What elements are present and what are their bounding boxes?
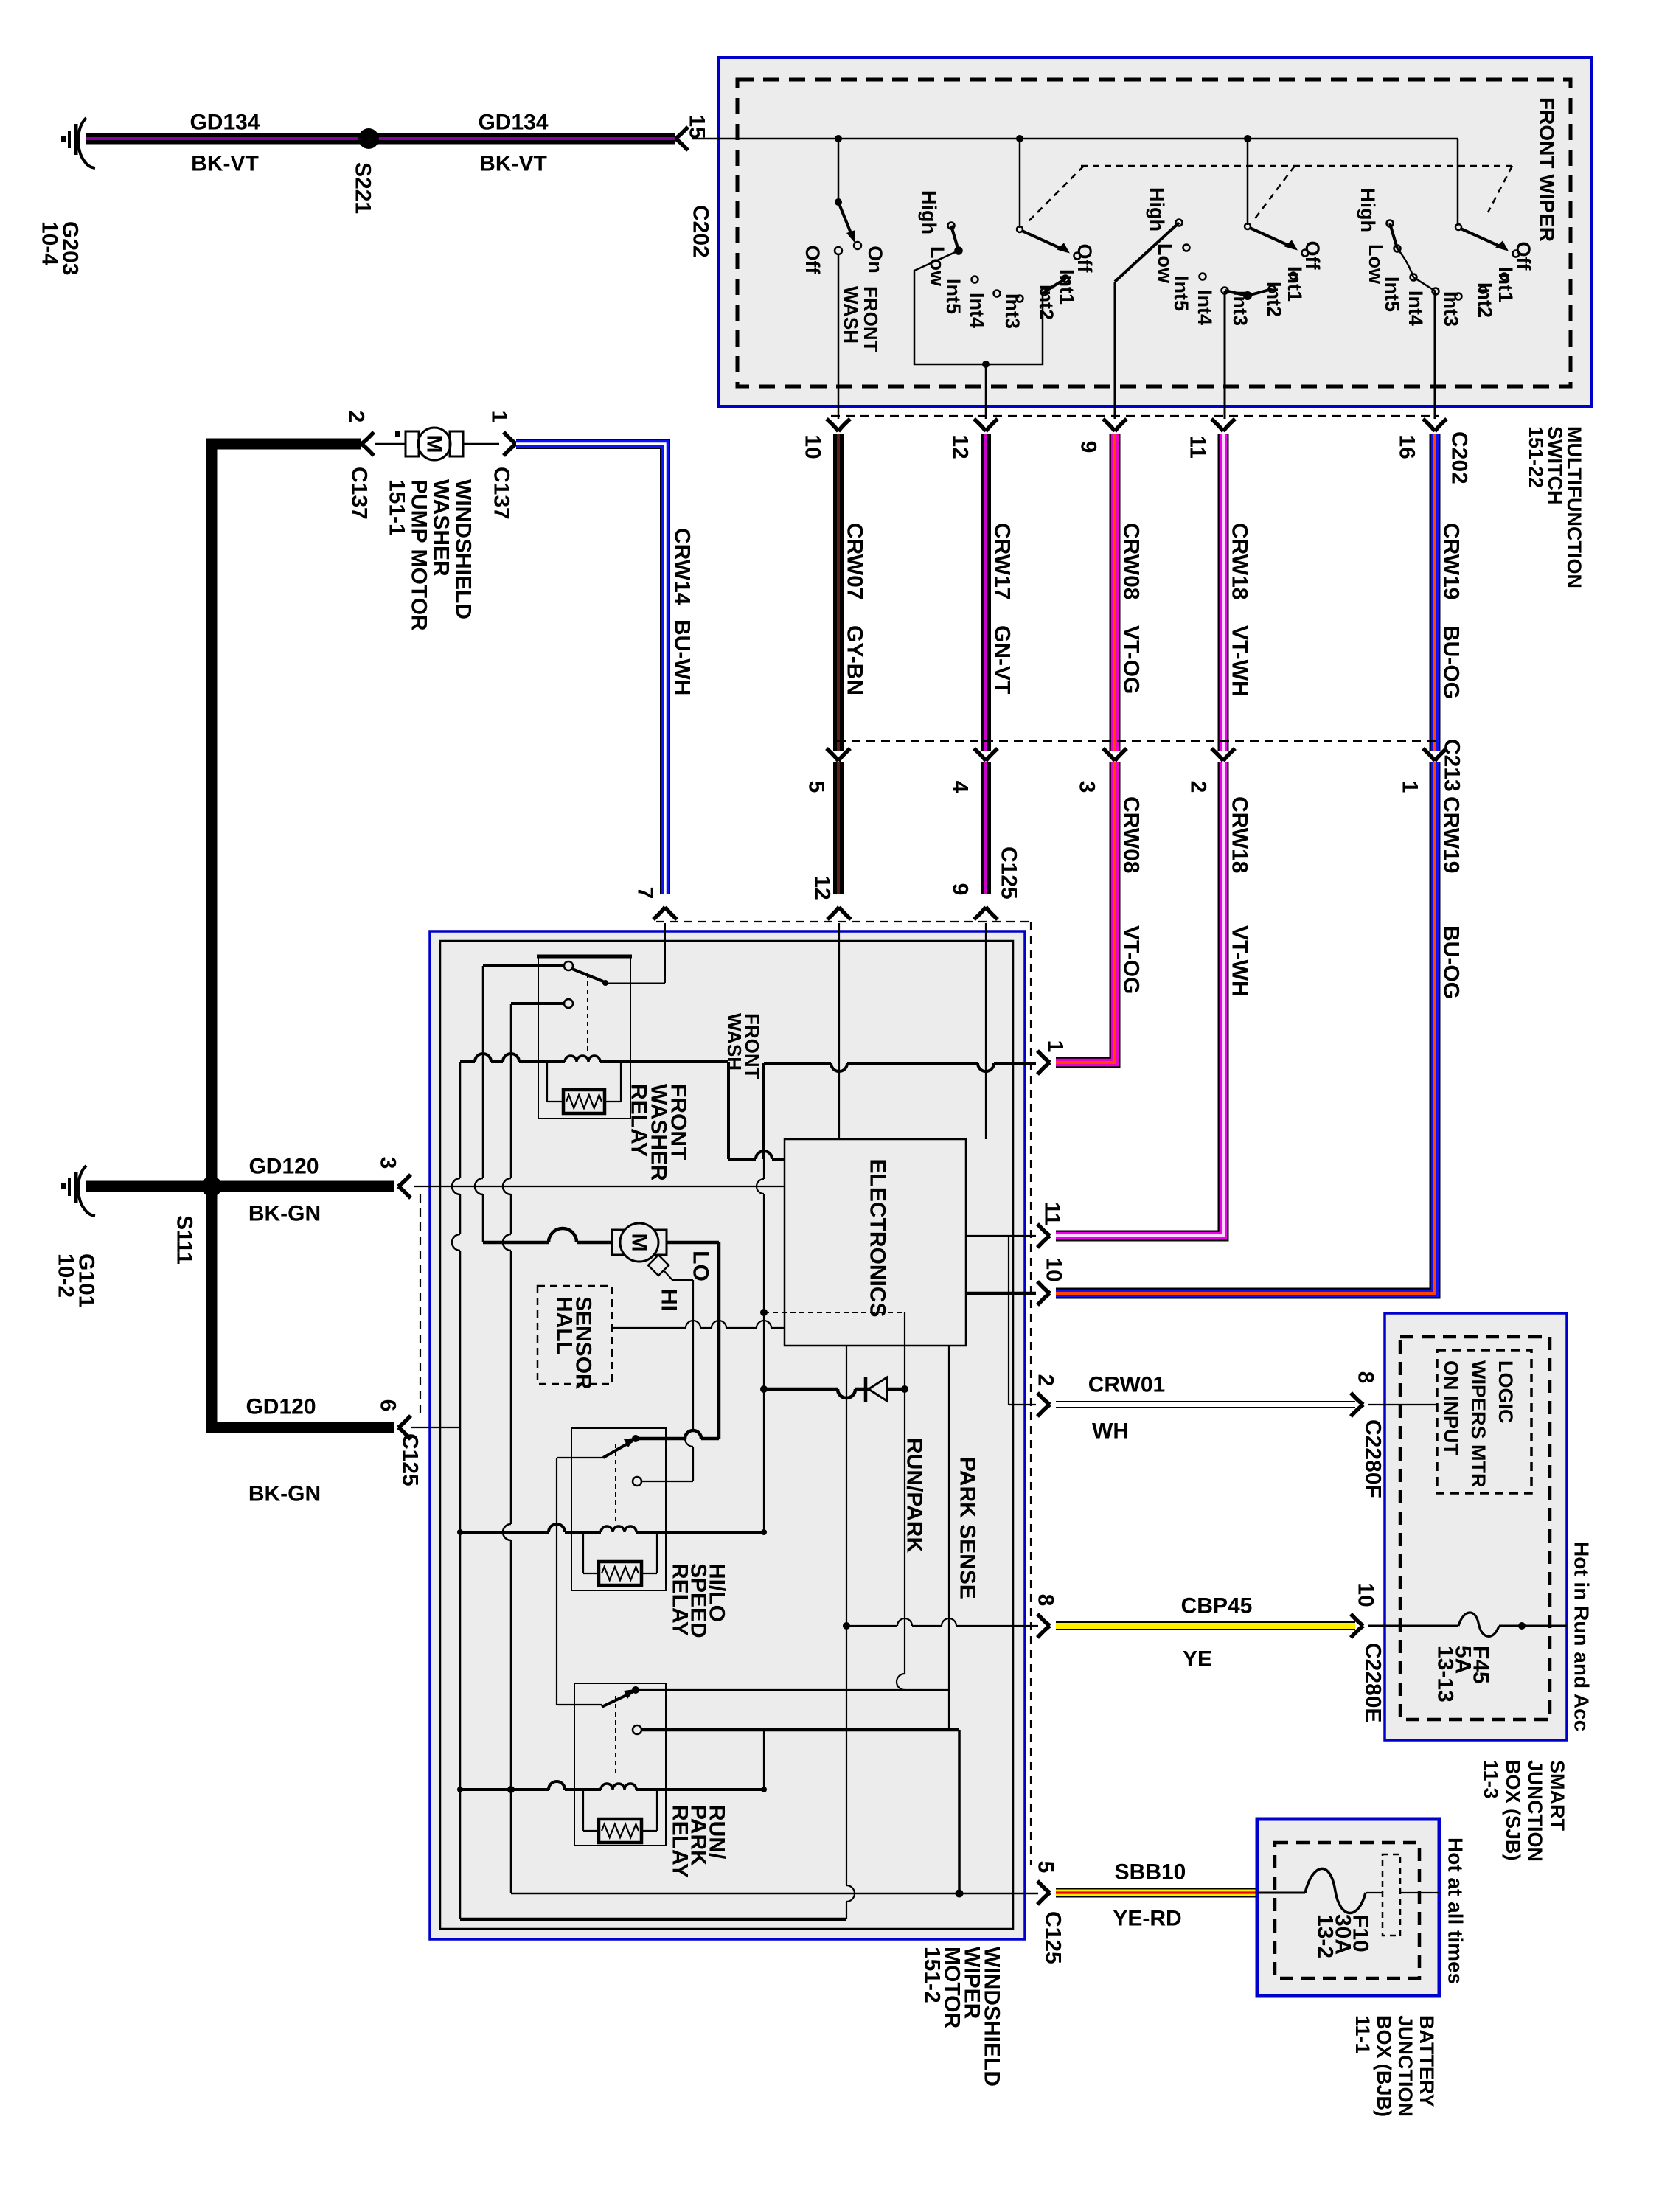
svg-text:C202: C202 (689, 205, 713, 258)
svg-text:JUNCTION: JUNCTION (1394, 2015, 1416, 2117)
svg-text:RELAY: RELAY (668, 1805, 692, 1878)
C202 pin 9 arrow (1103, 419, 1115, 431)
fuse F45 5A feed line (1368, 1625, 1458, 1627)
svg-text:151-1: 151-1 (385, 479, 409, 536)
C125 pin 6 arrow (398, 1416, 411, 1427)
linkage dashed bus (1081, 165, 1512, 167)
svg-text:VT-OG: VT-OG (1119, 925, 1144, 994)
svg-text:C202: C202 (1447, 431, 1472, 484)
FRONT WIPER switch box (multifunction switch) (719, 58, 1592, 406)
svg-text:High: High (918, 190, 940, 234)
C202 pin 10 arrow (827, 419, 838, 431)
linkage dashed pole1 (1026, 166, 1084, 223)
bus taps to switch pivots (835, 135, 842, 142)
svg-text:12: 12 (810, 875, 835, 900)
front washer relay (538, 956, 630, 1119)
connector C202 dashed boundary (831, 415, 1439, 417)
svg-text:CRW01: CRW01 (1088, 1373, 1165, 1397)
svg-text:CBP45: CBP45 (1181, 1594, 1253, 1618)
svg-text:C125: C125 (997, 846, 1021, 900)
motor pin 11 arrow (1037, 1224, 1050, 1236)
svg-text:CRW18: CRW18 (1228, 523, 1252, 599)
C202 pin 11 arrow (1211, 419, 1223, 431)
C2280F pin 8 arrow (1351, 1393, 1363, 1405)
svg-text:GD120: GD120 (248, 1155, 319, 1179)
svg-text:8: 8 (1034, 1594, 1058, 1607)
motor pin 8 arrow (1037, 1614, 1050, 1626)
wire GD120 ground branch and pin3 (86, 1181, 394, 1192)
svg-text:5: 5 (1034, 1861, 1058, 1874)
C137 pin 1 arrow (504, 432, 516, 444)
wire CRW17 GN-VT upper (981, 434, 991, 751)
hall sensor line (612, 1327, 686, 1329)
motor to hi/lo relay contact (717, 1242, 721, 1439)
svg-text:Int4: Int4 (1194, 290, 1216, 325)
C213 pin 2 arrow (1211, 748, 1223, 761)
svg-text:Off: Off (801, 246, 824, 275)
svg-text:2: 2 (1186, 781, 1211, 793)
svg-text:Int2: Int2 (1035, 285, 1057, 320)
svg-text:FRONT WIPER: FRONT WIPER (1536, 97, 1559, 242)
svg-text:C2280E: C2280E (1361, 1643, 1385, 1722)
wire CRW07 GY-BN upper (833, 434, 844, 751)
svg-text:GN-VT: GN-VT (990, 625, 1015, 694)
wire CRW17 lower to C125 pin 9 (981, 762, 991, 894)
washer relay resistor (546, 1062, 548, 1102)
svg-text:3: 3 (376, 1157, 400, 1169)
svg-text:11-3: 11-3 (1480, 1760, 1502, 1799)
svg-text:CRW07: CRW07 (843, 523, 867, 599)
hi/lo relay coil line (460, 1531, 549, 1534)
svg-text:GD134: GD134 (478, 111, 548, 135)
svg-text:BU-OG: BU-OG (1439, 625, 1464, 699)
svg-text:Int5: Int5 (1381, 276, 1403, 312)
svg-text:5: 5 (804, 781, 829, 793)
svg-text:10: 10 (801, 434, 825, 459)
hall sensor (538, 1286, 612, 1384)
pin 11 stub (966, 1235, 1036, 1237)
CRW01 source line (1008, 1236, 1009, 1405)
C125 pin 7 arrow (653, 907, 665, 919)
svg-text:11-1: 11-1 (1352, 2015, 1374, 2054)
svg-text:High: High (1357, 188, 1379, 232)
wire CRW08 lower to motor pin 1 (1056, 762, 1115, 1062)
SMART JUNCTION BOX (1385, 1313, 1567, 1740)
svg-text:Int3: Int3 (1229, 291, 1251, 326)
svg-text:GD134: GD134 (189, 111, 260, 135)
svg-text:CRW08: CRW08 (1119, 796, 1144, 873)
motor pin 5 arrow (1037, 1881, 1050, 1893)
splice S221 (358, 128, 379, 149)
svg-text:Hot at all times: Hot at all times (1444, 1837, 1467, 1984)
wire CRW19 lower to motor pin 10 (1056, 762, 1435, 1293)
arm link vertical V4 (556, 1458, 557, 1705)
C2280E pin 10 arrow (1351, 1614, 1363, 1626)
C213 pin 5 arrow (827, 748, 838, 761)
wire GD134 ground-side BK-VT (86, 133, 675, 145)
svg-text:WINDSHIELD: WINDSHIELD (451, 479, 476, 619)
svg-text:8: 8 (1354, 1371, 1378, 1384)
svg-text:1: 1 (487, 411, 512, 423)
svg-text:11: 11 (1186, 435, 1210, 459)
C125 dashed boundary left (420, 1194, 421, 1419)
run/park relay resistor (582, 1790, 584, 1831)
svg-text:Off: Off (1512, 242, 1534, 271)
GD120 pin 6 stub inside box (411, 1427, 460, 1428)
C137 pin 2 arrow (361, 432, 374, 444)
hi/lo speed relay (571, 1428, 666, 1590)
svg-text:LOGIC: LOGIC (1495, 1360, 1517, 1424)
C125 dashed boundary top/right (656, 921, 1031, 922)
svg-text:2: 2 (1034, 1374, 1058, 1387)
svg-text:BU-WH: BU-WH (670, 619, 695, 695)
svg-text:WASH: WASH (723, 1013, 745, 1071)
motor pin 1 arrow (1037, 1051, 1050, 1062)
wire CRW18 VT-WH upper (1218, 434, 1229, 751)
svg-text:C137: C137 (490, 467, 514, 520)
svg-text:PARK SENSE: PARK SENSE (956, 1457, 980, 1599)
svg-text:CRW08: CRW08 (1119, 523, 1144, 599)
svg-text:CRW19: CRW19 (1439, 523, 1464, 599)
ELECTRONICS block (785, 1139, 966, 1346)
C213 pin 3 arrow (1103, 748, 1115, 761)
svg-text:11: 11 (1040, 1202, 1065, 1225)
GD120 ground line inside box (414, 1186, 785, 1187)
C202 pin 16 arrow (1423, 419, 1435, 431)
svg-text:HI: HI (657, 1289, 681, 1311)
svg-text:C137: C137 (347, 467, 372, 520)
svg-text:10: 10 (1042, 1257, 1066, 1281)
C213 pin 4 arrow (974, 748, 986, 761)
svg-text:Int4: Int4 (1405, 291, 1427, 326)
svg-text:12: 12 (948, 434, 973, 459)
svg-text:RUN/PARK: RUN/PARK (902, 1438, 927, 1553)
pin 1 wash input line (762, 1063, 765, 1159)
svg-text:13-2: 13-2 (1313, 1914, 1338, 1958)
svg-text:RELAY: RELAY (668, 1563, 692, 1636)
wire CRW01 WH (1056, 1401, 1355, 1408)
svg-text:M: M (627, 1234, 652, 1252)
wiper switch pole 2 (1245, 223, 1251, 229)
wire/bus from pin15 into switch box (692, 138, 1458, 140)
run/park pivot line to park sense (639, 1689, 949, 1691)
wire stub CRW01 to logic box (1368, 1404, 1437, 1405)
run/park relay coil line (460, 1788, 549, 1791)
svg-text:BK-VT: BK-VT (479, 152, 547, 176)
svg-text:HALL: HALL (552, 1296, 577, 1355)
svg-text:JUNCTION: JUNCTION (1524, 1760, 1546, 1862)
svg-text:VT-WH: VT-WH (1228, 925, 1252, 997)
wire CRW14 BU-WH washer feed (516, 444, 665, 894)
svg-text:Int3: Int3 (1001, 293, 1023, 329)
run/park drive vertical (904, 1312, 905, 1674)
C125 pin 12 arrow (827, 907, 839, 919)
fuse F10 30A (1305, 1868, 1366, 1913)
diode (764, 1388, 838, 1391)
wire CRW07 lower to C125 pin 12 (833, 762, 844, 894)
svg-text:10-2: 10-2 (54, 1253, 78, 1298)
V line x=1036 electronics (763, 1159, 765, 1179)
motor pin 2 arrow (1037, 1393, 1050, 1405)
svg-text:C125: C125 (1041, 1911, 1065, 1964)
svg-text:10: 10 (1354, 1582, 1378, 1607)
wire CRW08 VT-OG upper (1110, 434, 1121, 751)
svg-text:CRW14: CRW14 (670, 528, 695, 605)
ground G203 10-4 (78, 118, 95, 168)
C202 pin 12 arrow (974, 419, 986, 431)
ground bus bottom (460, 1918, 846, 1921)
wire GD120 BK-GN from washer pump to S111 and pin6 (212, 444, 394, 1427)
svg-text:CRW17: CRW17 (990, 523, 1015, 599)
svg-text:BK-VT: BK-VT (191, 152, 259, 176)
C125 pin 3 arrow (398, 1175, 411, 1186)
svg-text:15: 15 (685, 114, 709, 139)
motor pin 10 arrow (1037, 1281, 1050, 1293)
svg-text:BK-GN: BK-GN (248, 1482, 321, 1506)
svg-text:High: High (1146, 187, 1168, 232)
wire SBB10 YE-RD (1056, 1888, 1257, 1898)
svg-text:GY-BN: GY-BN (843, 625, 867, 695)
svg-text:6: 6 (376, 1399, 400, 1412)
svg-text:1: 1 (1398, 781, 1422, 793)
electronics ground drop (846, 1346, 847, 1885)
ground G101 10-2 (78, 1166, 95, 1216)
svg-text:ELECTRONICS: ELECTRONICS (866, 1158, 890, 1317)
svg-text:FRONT: FRONT (860, 286, 882, 352)
svg-text:YE: YE (1183, 1647, 1212, 1672)
svg-text:10-4: 10-4 (38, 221, 62, 265)
svg-text:VT-WH: VT-WH (1228, 625, 1252, 697)
svg-text:BU-OG: BU-OG (1439, 925, 1464, 999)
run/park relay (574, 1683, 666, 1846)
svg-text:SMART: SMART (1546, 1760, 1568, 1831)
svg-text:Int3: Int3 (1440, 291, 1462, 327)
svg-text:13-13: 13-13 (1433, 1646, 1458, 1703)
svg-text:Int1: Int1 (1495, 267, 1517, 302)
connector C213 dashed boundary (837, 740, 1438, 742)
svg-text:RELAY: RELAY (627, 1084, 651, 1157)
svg-text:Int1: Int1 (1284, 266, 1306, 302)
svg-text:WASHER: WASHER (429, 479, 453, 577)
svg-text:CRW18: CRW18 (1228, 796, 1252, 873)
pin 10 stub (966, 1292, 1036, 1295)
FRONT WASH feed line (727, 1062, 730, 1159)
svg-text:C2280F: C2280F (1361, 1419, 1385, 1498)
wire left vertical V1 (459, 1062, 462, 1178)
hi/lo relay resistor (582, 1532, 584, 1573)
svg-text:Int2: Int2 (1263, 282, 1285, 317)
svg-text:Off: Off (1301, 241, 1324, 271)
svg-text:3: 3 (1075, 781, 1099, 793)
svg-text:ON INPUT: ON INPUT (1440, 1360, 1462, 1456)
motor HI tap (648, 1255, 669, 1276)
svg-text:1: 1 (1043, 1040, 1068, 1053)
svg-text:BOX (SJB): BOX (SJB) (1502, 1760, 1524, 1861)
svg-text:S111: S111 (173, 1215, 197, 1265)
svg-text:151-22: 151-22 (1525, 426, 1547, 488)
bus bar (1382, 1854, 1400, 1935)
svg-text:BATTERY: BATTERY (1416, 2015, 1438, 2107)
svg-text:C125: C125 (398, 1433, 422, 1486)
svg-text:S221: S221 (351, 162, 375, 214)
battery feed to pin 5 (641, 1728, 959, 1732)
svg-text:151-2: 151-2 (920, 1947, 945, 2003)
svg-text:C213: C213 (1440, 739, 1464, 792)
svg-text:YE-RD: YE-RD (1113, 1907, 1181, 1931)
pin 8 line (846, 1625, 897, 1627)
front wash switch (835, 198, 842, 206)
pin 9 stub into electronics (985, 923, 987, 1139)
svg-text:BK-GN: BK-GN (248, 1202, 321, 1226)
svg-text:WASH: WASH (840, 286, 862, 344)
svg-text:Int5: Int5 (1170, 276, 1192, 311)
svg-text:9: 9 (1077, 441, 1101, 453)
wiper switch pole 1 (1017, 226, 1023, 232)
pin 12 stub into electronics (838, 923, 840, 1139)
washer relay coil line (460, 1060, 475, 1063)
splice S111 (201, 1176, 222, 1197)
svg-text:CRW19: CRW19 (1439, 796, 1464, 873)
svg-text:16: 16 (1395, 434, 1419, 459)
svg-text:9: 9 (948, 883, 973, 896)
wire CRW18 lower to motor pin 11 (1056, 762, 1223, 1236)
svg-text:WIPERS MTR: WIPERS MTR (1467, 1360, 1489, 1488)
C213 pin 1 arrow (1423, 748, 1435, 761)
BATTERY JUNCTION BOX (1257, 1819, 1439, 1996)
wire CRW19 BU-OG upper (1430, 434, 1441, 751)
svg-text:M: M (422, 435, 447, 453)
wiper motor M (483, 1241, 549, 1245)
svg-text:VT-OG: VT-OG (1119, 625, 1144, 694)
park sense vertical (948, 1346, 950, 1731)
park sense dashed link (764, 1312, 905, 1313)
svg-text:Int5: Int5 (942, 279, 964, 314)
connector C202 pin 15 arrow (675, 127, 688, 139)
svg-text:BOX (BJB): BOX (BJB) (1373, 2015, 1395, 2117)
svg-text:Hot in Run and Acc: Hot in Run and Acc (1571, 1542, 1593, 1731)
svg-text:On: On (864, 246, 886, 274)
svg-text:Int1: Int1 (1056, 269, 1078, 305)
wire left vertical V3 (510, 1004, 512, 1178)
svg-text:WH: WH (1092, 1419, 1129, 1444)
svg-text:2: 2 (344, 411, 369, 423)
svg-text:PUMP MOTOR: PUMP MOTOR (407, 479, 431, 631)
svg-text:7: 7 (633, 887, 658, 900)
svg-text:LO: LO (689, 1251, 713, 1281)
svg-text:SBB10: SBB10 (1115, 1860, 1186, 1885)
svg-text:Off: Off (1074, 244, 1096, 274)
windshield washer pump motor (375, 443, 406, 445)
C125 pin 9 arrow (974, 907, 986, 919)
wire CBP45 YE (1056, 1621, 1355, 1630)
svg-text:4: 4 (948, 781, 973, 793)
wiper switch pole 3 (1455, 224, 1461, 230)
wire left vertical V2 (482, 966, 484, 1178)
WINDSHIELD WIPER MOTOR box (430, 931, 1025, 1939)
svg-text:GD120: GD120 (246, 1395, 316, 1419)
svg-text:Int2: Int2 (1474, 282, 1496, 318)
svg-text:Int4: Int4 (966, 293, 988, 328)
